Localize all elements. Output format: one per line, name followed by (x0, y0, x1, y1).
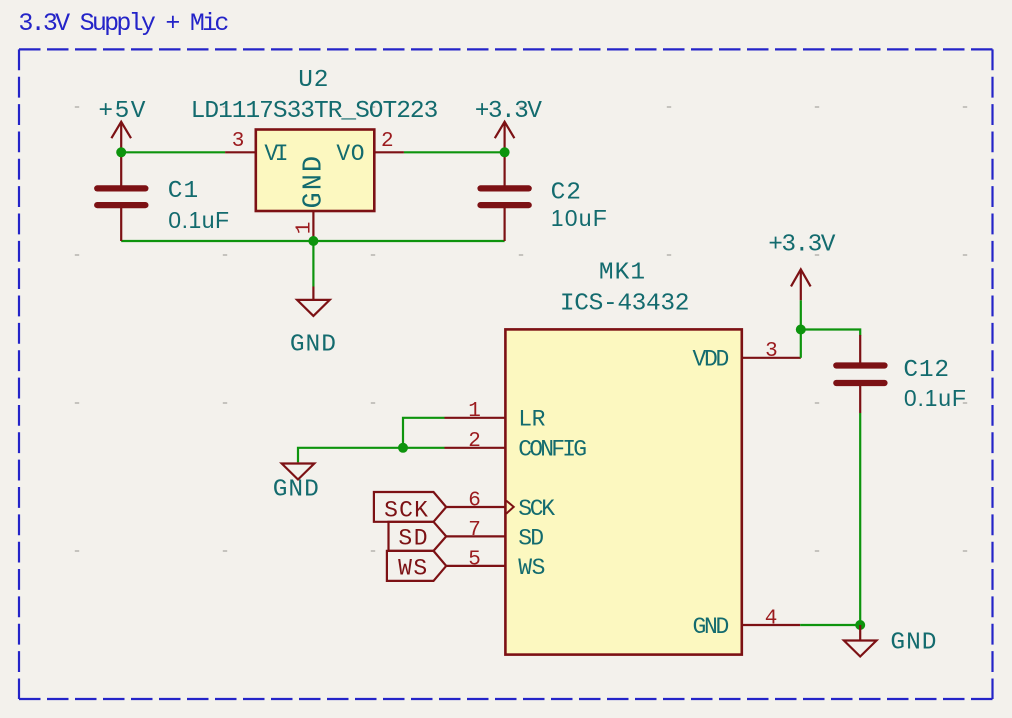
svg-text:MK1: MK1 (599, 260, 646, 287)
svg-text:GND: GND (290, 332, 337, 359)
svg-text:1: 1 (294, 222, 317, 235)
svg-text:GND: GND (890, 630, 937, 657)
MK1 pin 1 LR (445, 417, 505, 419)
junction GND/C12 node (855, 620, 865, 630)
global label SD (389, 522, 447, 551)
MK1 pin 3 VDD (743, 357, 801, 359)
wire C12 down to ground node (859, 413, 861, 625)
svg-text:SCK: SCK (518, 496, 555, 522)
svg-text:+3.3V: +3.3V (475, 98, 542, 125)
svg-text:2: 2 (381, 130, 394, 153)
U2 pin 1 GND (312, 211, 314, 241)
svg-text:2: 2 (468, 430, 481, 453)
svg-text:3.3V Supply + Mic: 3.3V Supply + Mic (18, 9, 228, 38)
wire U2 pin 2 to +3.3V node (404, 151, 505, 153)
svg-text:GND: GND (692, 614, 728, 640)
svg-text:5: 5 (468, 548, 481, 571)
power symbol +3.3V at U2 output (495, 122, 515, 153)
svg-text:4: 4 (765, 608, 778, 631)
U2 pin 2 VO (374, 151, 404, 153)
microphone MK1 body (505, 329, 741, 654)
svg-text:GND: GND (273, 476, 320, 503)
wire +3.3V node to C12 (801, 330, 860, 336)
MK1 pin 7 SD (446, 535, 504, 537)
ground symbol at CONFIG net (282, 462, 315, 479)
svg-text:3: 3 (765, 340, 778, 363)
svg-text:6: 6 (468, 489, 481, 512)
svg-text:C2: C2 (551, 180, 582, 207)
svg-text:VI: VI (264, 141, 286, 167)
wire LR pin to CONFIG net (403, 418, 445, 448)
junction LR/CONFIG node (398, 443, 408, 453)
svg-text:7: 7 (468, 519, 481, 542)
junction +3.3V/C12 node (796, 325, 806, 335)
svg-text:WS: WS (398, 556, 429, 582)
svg-text:VO: VO (336, 141, 365, 167)
svg-text:LR: LR (518, 407, 545, 433)
svg-text:0.1uF: 0.1uF (904, 385, 967, 411)
power symbol +5V (111, 122, 131, 153)
junction +5V node (116, 147, 126, 157)
regulator U2 body (256, 130, 374, 212)
ground symbol under U2 (297, 287, 330, 316)
MK1 pin 2 CONFIG (445, 447, 505, 449)
svg-text:SD: SD (518, 525, 543, 551)
capacitor C2 (481, 188, 529, 205)
MK1 SCK clock mark (506, 501, 514, 514)
ground symbol at C12 (844, 625, 877, 657)
svg-text:VDD: VDD (692, 347, 728, 373)
svg-text:+3.3V: +3.3V (768, 231, 836, 258)
junction +3.3V node (500, 147, 510, 157)
global label SCK (374, 492, 446, 522)
svg-text:1: 1 (468, 400, 481, 423)
U2 pin 3 VI (225, 151, 256, 153)
svg-text:10uF: 10uF (551, 205, 608, 231)
svg-text:C1: C1 (168, 178, 199, 205)
svg-text:+5V: +5V (98, 98, 147, 125)
svg-text:0.1uF: 0.1uF (168, 207, 229, 233)
global label WS (387, 551, 446, 581)
svg-text:U2: U2 (298, 67, 329, 94)
svg-text:WS: WS (518, 555, 545, 581)
capacitor C12 (836, 366, 884, 384)
wire U2 GND pin down to ground (312, 241, 314, 287)
power symbol +3.3V at MK1 (791, 269, 811, 300)
wire +5V to U2 pin 3 (121, 151, 225, 153)
wire CONFIG net to ground (298, 448, 445, 463)
svg-text:3: 3 (232, 130, 245, 153)
wire ground bus C1 to C2 (121, 240, 504, 242)
MK1 pin 4 GND (743, 624, 801, 626)
wire MK1 GND pin to ground node (800, 624, 860, 626)
MK1 pin 6 SCK (446, 506, 504, 508)
svg-text:GND: GND (300, 154, 330, 209)
junction U2 ground node (308, 236, 318, 246)
svg-text:ICS-43432: ICS-43432 (560, 290, 689, 317)
MK1 pin 5 WS (446, 565, 504, 567)
svg-text:C12: C12 (903, 357, 950, 384)
svg-text:SD: SD (398, 526, 429, 552)
svg-text:CONFIG: CONFIG (518, 437, 586, 463)
capacitor C1 (97, 188, 145, 205)
svg-text:SCK: SCK (384, 497, 429, 523)
svg-text:LD1117S33TR_SOT223: LD1117S33TR_SOT223 (191, 98, 438, 125)
wire +3.3V down to VDD pin (800, 300, 802, 358)
